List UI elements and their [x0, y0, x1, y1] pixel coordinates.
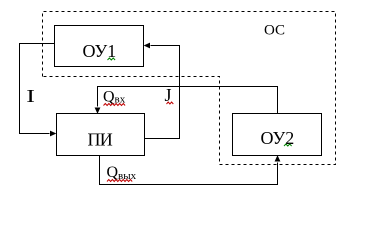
block OU2 — [233, 114, 322, 156]
dashed feedback boundary OC — [43, 12, 336, 165]
label OC — [264, 23, 285, 39]
svg-text:ОУ1: ОУ1 — [83, 41, 117, 61]
wire Qvx into PI top and OU2 top — [98, 87, 278, 114]
label I — [26, 86, 35, 106]
red squiggle under Qvyx — [107, 180, 132, 182]
wire I feedback from OU1 left to PI left — [20, 44, 55, 134]
arrow into PI left — [50, 131, 56, 137]
label J — [165, 85, 172, 105]
label Qvyx — [107, 164, 137, 182]
wire Qvyx from PI bottom to OU2 bottom — [100, 156, 278, 185]
label PI — [88, 130, 113, 150]
arrow into PI top — [95, 108, 101, 114]
wire J from PI right to OU1 right — [145, 46, 180, 139]
svg-text:ПИ: ПИ — [88, 130, 113, 150]
svg-text:ОС: ОС — [264, 23, 285, 39]
label OU1 — [83, 41, 117, 61]
red squiggle under J — [167, 102, 174, 104]
green squiggle under 2 — [284, 144, 292, 146]
green squiggle under 1 — [108, 58, 116, 60]
block PI — [57, 114, 145, 156]
red squiggle under Qvx — [104, 104, 126, 106]
svg-text:Q: Q — [107, 164, 119, 181]
arrow into OU1 right — [144, 43, 150, 49]
arrow into OU2 bottom — [275, 155, 281, 161]
svg-text:I: I — [26, 86, 35, 106]
label OU2 — [261, 128, 295, 148]
block OU1 — [55, 26, 144, 67]
label Qvx — [103, 89, 126, 106]
